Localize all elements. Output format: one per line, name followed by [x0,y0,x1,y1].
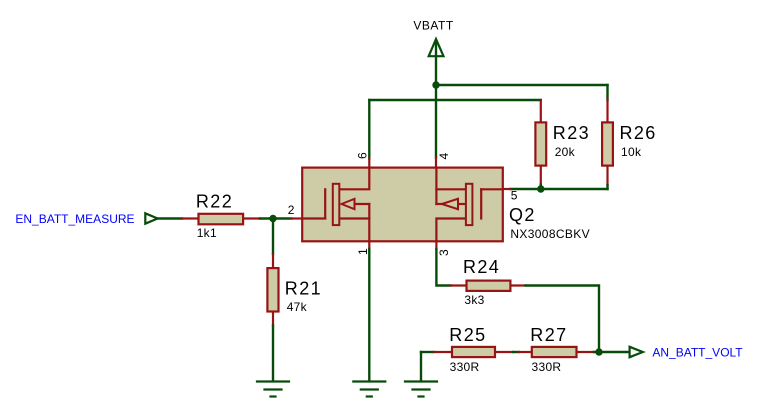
ground (under pin 1) [353,382,385,397]
svg-text:R26: R26 [620,123,657,143]
resistor R27 [519,347,594,357]
svg-text:3k3: 3k3 [464,293,484,307]
ground (left of R25) [405,382,437,397]
junction gate node [269,215,276,222]
source lead [436,219,465,242]
junction output node [595,348,602,355]
svg-text:10k: 10k [621,145,642,159]
channel bar [466,184,473,225]
resistor R24 [451,281,526,291]
pin 1 red stub [368,241,370,249]
drain lead [340,168,370,190]
wire pin6 row to R23 [369,99,541,101]
wire junction down to R21 [272,219,274,255]
wire R26 top column [606,85,608,100]
svg-text:2: 2 [288,203,295,217]
wire between R25 and R27 [513,351,519,353]
input terminal EN_BATT_MEASURE [145,213,157,223]
pin 2 red stub [292,217,302,219]
body arrow line [355,203,370,205]
body arrow head [342,199,355,209]
svg-text:4: 4 [437,153,451,160]
transistor Q2 (dual MOSFET NX3008CBKV) body box [302,168,503,242]
wire pin 6 column [368,100,370,159]
svg-text:5: 5 [511,188,518,202]
svg-text:R25: R25 [449,325,486,345]
resistor R21 [267,254,278,326]
output terminal AN_BATT_VOLT [630,347,643,357]
svg-text:R22: R22 [196,191,233,211]
channel bar [333,184,340,225]
svg-text:3: 3 [437,249,451,256]
drain lead [435,168,437,204]
resistor R26 [602,100,613,186]
ground (under R21) [257,382,289,397]
wire VBATT row to R26 [436,84,608,86]
svg-text:AN_BATT_VOLT: AN_BATT_VOLT [652,346,743,360]
junction R23/R26/pin5 node [537,185,544,192]
resistor R25 [434,347,513,357]
gate lead to pin 5 [481,188,502,190]
svg-text:NX3008CBKV: NX3008CBKV [510,227,590,241]
resistor R23 [535,100,546,185]
wire pin 1 to ground [368,249,370,381]
gate plate [324,189,326,218]
power symbol VBATT (up arrow) [429,39,444,56]
wire R23 bottom to junction [540,185,542,190]
svg-text:1: 1 [356,248,370,255]
pin 4 red stub [435,158,437,168]
body arrow head [442,199,458,209]
svg-text:VBATT: VBATT [413,19,453,33]
Q2 right FET [436,168,502,242]
junction VBATT node [432,81,439,88]
svg-text:330R: 330R [532,360,562,374]
wire VBATT node to pin 4 [435,84,437,158]
pin 5 red stub [504,188,511,190]
wire R27 to output terminal [594,351,629,353]
wire R21 to ground [272,326,274,381]
svg-text:R27: R27 [530,325,567,345]
svg-text:47k: 47k [287,300,308,314]
pin 3 red stub [435,241,437,249]
wire terminal to R22 [159,217,183,219]
source/body vertical [368,204,370,241]
gate plate [480,189,482,218]
svg-text:EN_BATT_MEASURE: EN_BATT_MEASURE [15,212,134,226]
gate lead [303,217,326,219]
svg-text:6: 6 [356,152,370,159]
svg-text:330R: 330R [450,360,480,374]
svg-text:20k: 20k [555,145,576,159]
svg-text:Q2: Q2 [509,205,536,225]
resistor R22 [182,214,260,225]
svg-text:1k1: 1k1 [197,226,217,240]
wire R22 to junction and pin 2 [260,217,292,219]
wire pin5 row [511,188,608,190]
svg-text:R24: R24 [463,257,500,277]
pin 6 red stub [368,159,370,168]
wire R24 to output column [526,286,600,353]
wire pin 3 to R24 [436,249,450,285]
svg-text:R21: R21 [285,278,322,298]
svg-text:R23: R23 [553,123,590,143]
wire VBATT stem [435,42,437,85]
body arrow line [436,203,442,205]
source lead [340,217,370,219]
wire ground to R25 [421,351,434,353]
Q2 left FET [303,168,370,242]
wire R26 bottom lead [606,185,608,189]
